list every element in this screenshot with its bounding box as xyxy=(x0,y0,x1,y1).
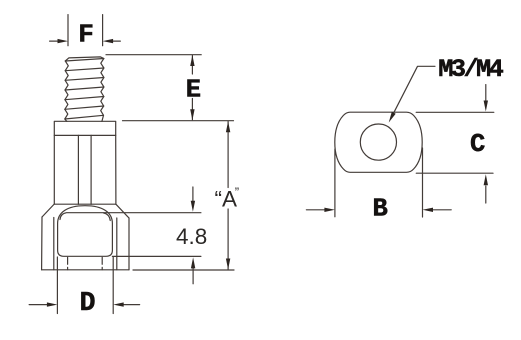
svg-text:D: D xyxy=(80,288,96,318)
4.8 upper arrowhead (down) xyxy=(191,201,195,212)
svg-text:C: C xyxy=(470,130,485,159)
dimension 4.8 upper arrow (outside, pointing down) xyxy=(192,187,194,201)
E top arrowhead xyxy=(190,55,194,66)
F left arrowhead xyxy=(58,39,69,43)
base shoulder line xyxy=(54,203,116,205)
thread (screw stud, side view) xyxy=(65,57,104,122)
base outline xyxy=(42,217,129,270)
dimension B arrow right xyxy=(432,209,451,211)
dome inner line / 4.8 top extension line xyxy=(60,213,201,221)
F right arrowhead xyxy=(103,39,114,43)
D right arrowhead xyxy=(113,302,124,306)
dimension D arrow left xyxy=(29,304,48,306)
nut outline (end view) xyxy=(335,112,422,172)
svg-text:“A: “A xyxy=(215,186,238,211)
B right arrowhead xyxy=(423,208,434,212)
rubber dome outline xyxy=(58,206,113,257)
dimension D arrow right xyxy=(123,304,140,306)
dimension E top extension line xyxy=(106,54,201,56)
dome bottom extension line (4.8 bottom) xyxy=(112,255,200,257)
svg-text:B: B xyxy=(373,195,388,224)
base inner vertical edges xyxy=(54,218,117,270)
dimension C extension lines xyxy=(416,112,494,173)
A bottom arrowhead xyxy=(226,259,230,270)
svg-text:”: ” xyxy=(235,185,239,200)
svg-text:E: E xyxy=(186,76,201,105)
A top arrowhead xyxy=(226,121,230,132)
E / A shared extension line xyxy=(123,120,234,122)
dimension B arrow left xyxy=(306,209,325,211)
body shaft inner rib lines xyxy=(78,135,91,204)
dimension F extension lines xyxy=(68,15,103,46)
dimension 4.8 lower arrow (outside, pointing up) xyxy=(192,268,194,284)
base right chamfer xyxy=(116,204,129,218)
svg-text:F: F xyxy=(78,20,94,50)
C lower arrowhead (up) xyxy=(484,174,488,185)
4.8 lower arrowhead (up) xyxy=(191,257,195,268)
dimension F arrow right xyxy=(112,40,121,42)
dimension F arrow left xyxy=(50,40,59,42)
tapped hole circle xyxy=(360,124,396,160)
dimension B extension lines xyxy=(335,148,423,217)
hidden edge dashes under dome xyxy=(68,257,103,269)
svg-text:4.8: 4.8 xyxy=(176,224,207,249)
E bottom arrowhead xyxy=(190,109,194,120)
leader line M3/M4 xyxy=(394,66,435,112)
base left chamfer xyxy=(42,204,54,217)
D left arrowhead xyxy=(47,302,58,306)
leader arrowhead xyxy=(389,112,396,123)
dimension C lower arrow (outside, pointing up) xyxy=(485,186,487,203)
C upper arrowhead (down) xyxy=(484,101,488,112)
svg-text:M3/M4: M3/M4 xyxy=(438,55,503,84)
dimension A bottom extension line xyxy=(133,269,234,271)
dimension D extension lines xyxy=(57,257,113,314)
dimension E line with arrows xyxy=(191,56,193,120)
arrowheads xyxy=(47,39,488,307)
body shaft outer edges xyxy=(54,135,116,204)
dimension A line with arrows xyxy=(227,122,229,270)
B left arrowhead xyxy=(324,208,335,212)
collar (flange under thread) xyxy=(54,121,115,135)
dimension C upper arrow (outside, pointing down) xyxy=(485,85,487,101)
